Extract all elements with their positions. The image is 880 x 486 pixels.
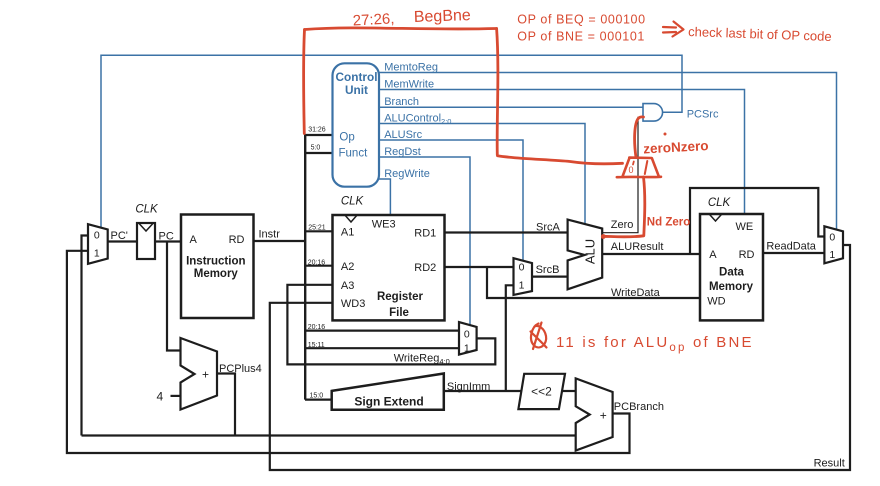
svg-text:Memory: Memory: [194, 268, 239, 280]
svg-text:Sign Extend: Sign Extend: [354, 395, 423, 409]
svg-text:OP of BNE = 000101: OP of BNE = 000101: [517, 30, 645, 44]
svg-text:Instruction: Instruction: [186, 256, 245, 268]
instruction memory box: [181, 215, 254, 319]
red wire: right vertical down and across to red mux input: [497, 29, 623, 164]
wire PCPlus4 adder output drop: [217, 374, 235, 436]
wire PCPlus4 bottom run to branch adder: [82, 434, 577, 436]
svg-text:PC: PC: [159, 230, 174, 242]
svg-text:CLK: CLK: [135, 204, 159, 216]
svg-text:Unit: Unit: [345, 83, 368, 97]
svg-text:Nd Zero: Nd Zero: [647, 217, 690, 229]
wire PC tap down to PCPlus4 adder: [167, 242, 181, 351]
svg-text:1: 1: [464, 343, 470, 355]
svg-text:Branch: Branch: [384, 96, 419, 108]
register file box with CLK: [333, 196, 445, 321]
svg-text:0: 0: [629, 165, 634, 175]
svg-text:Instr: Instr: [259, 229, 281, 241]
svg-text:RegDst: RegDst: [384, 146, 421, 158]
svg-text:WD3: WD3: [341, 298, 365, 310]
svg-text:Funct: Funct: [339, 148, 369, 160]
wire ALUResult to data memory A: [602, 253, 700, 255]
svg-text:ALUSrc: ALUSrc: [384, 129, 422, 141]
svg-text:WriteReg4:0: WriteReg4:0: [394, 353, 450, 367]
wire RegDst: control unit to WriteReg mux select: [379, 157, 470, 325]
red wire: mux up to AND gate input: [635, 117, 644, 158]
svg-text:20:16: 20:16: [308, 324, 326, 331]
adder PCBranch: [576, 378, 613, 450]
wire SignImm from sign extend to shifter: [444, 390, 521, 392]
svg-text:ReadData: ReadData: [766, 240, 816, 252]
wire MemtoReg: control unit to result mux select: [379, 73, 837, 230]
svg-text:CLK: CLK: [341, 196, 365, 208]
red dot above zeroNzero: [664, 133, 667, 136]
wire slice 20:16 to A2: [305, 265, 333, 267]
mux PC source (0/1): [88, 224, 108, 264]
svg-text:Result: Result: [814, 457, 845, 469]
mux SrcB (0/1): [514, 258, 533, 295]
svg-text:SrcA: SrcA: [536, 221, 561, 233]
wire Instr: instruction memory RD to instruction bus: [254, 240, 306, 242]
ALU: [568, 220, 603, 290]
red double arrow: [663, 22, 684, 37]
wire ALUResult bypass over data memory to result mux input 0: [690, 188, 824, 254]
svg-text:25:21: 25:21: [308, 225, 326, 232]
adder PCPlus4: [181, 338, 218, 410]
red wire: mux down to Zero wire and left to ALU: [604, 177, 645, 237]
mux result / MemtoReg (0/1): [824, 226, 843, 263]
svg-text:0: 0: [94, 230, 100, 242]
svg-text:0: 0: [464, 329, 470, 341]
svg-text:A1: A1: [341, 227, 354, 239]
svg-text:+: +: [202, 367, 209, 381]
svg-text:RD: RD: [739, 249, 755, 261]
sign extend box: [332, 374, 444, 410]
svg-text:RD: RD: [229, 234, 245, 246]
svg-text:CLK: CLK: [708, 197, 732, 209]
svg-text:File: File: [389, 307, 409, 319]
wire shifter output to branch adder: [562, 390, 576, 392]
svg-text:15:0: 15:0: [310, 393, 324, 400]
wire SrcB mux output to ALU: [532, 276, 568, 278]
svg-text:A: A: [709, 249, 717, 261]
wire instruction bus vertical: [304, 134, 306, 400]
svg-text:WD: WD: [707, 296, 725, 308]
wire SignImm tap up to SrcB mux input 1: [506, 285, 514, 391]
wire PCSrc: AND output up and across to PC mux select: [101, 55, 682, 227]
red text 27:26 BegBne: [352, 7, 471, 29]
register PC with CLK: [135, 204, 159, 260]
svg-text:4: 4: [157, 389, 164, 403]
wire RD1 to ALU SrcA: [445, 231, 568, 233]
wire Zero from ALU up toward AND gate (thin): [602, 117, 643, 232]
svg-text:RD2: RD2: [414, 262, 436, 274]
svg-text:ALUControl2:0: ALUControl2:0: [384, 112, 451, 126]
red doodle phi symbol: [531, 323, 547, 350]
AND gate PCSrc (blue): [643, 104, 663, 122]
svg-text:1: 1: [519, 280, 525, 292]
svg-text:A: A: [190, 234, 198, 246]
wire Branch: control unit to AND gate input: [379, 106, 643, 108]
wire slice 15:0 to sign extend: [305, 399, 332, 401]
svg-text:SignImm: SignImm: [447, 381, 490, 393]
svg-text:BegBne: BegBne: [414, 7, 472, 26]
wire WriteData branch from RD2 to data memory WD: [487, 267, 700, 298]
wire slice 15:11 to WriteReg mux input 1: [305, 347, 459, 349]
wire PCPlus4 loop to PC mux input 0: [82, 236, 89, 436]
svg-text:A2: A2: [341, 261, 354, 273]
wire ReadData to result mux input 1: [763, 252, 824, 254]
svg-text:PCBranch: PCBranch: [614, 401, 664, 413]
svg-text:SrcB: SrcB: [536, 264, 560, 276]
svg-text:15:11: 15:11: [308, 342, 325, 349]
svg-text:<<2: <<2: [531, 385, 552, 399]
svg-text:5:0: 5:0: [311, 145, 321, 152]
shifter left 2: [518, 374, 565, 409]
svg-text:+: +: [600, 408, 607, 422]
control unit (blue rounded box): [333, 63, 380, 186]
svg-text:0: 0: [829, 231, 835, 243]
svg-text:ALU: ALU: [583, 239, 598, 264]
red wire: left vertical from bracket down to 31:26 tap: [302, 30, 306, 134]
svg-text:Op: Op: [339, 132, 354, 144]
svg-text:PCSrc: PCSrc: [687, 108, 719, 120]
wire slice 31:26 Op tap: [305, 134, 333, 136]
svg-text:Memory: Memory: [709, 281, 754, 293]
wire WriteReg loop from mux output back to A3: [287, 285, 495, 365]
svg-text:check last bit of OP code: check last bit of OP code: [688, 24, 832, 44]
wire PCBranch: branch adder output loop to PC mux input 1: [67, 251, 630, 453]
wire Result from result mux down and back to WD3: [270, 245, 850, 470]
wire RegWrite: control unit to register file WE3: [379, 179, 390, 214]
svg-text:ALUResult: ALUResult: [611, 241, 664, 253]
svg-text:Zero: Zero: [611, 219, 634, 231]
red blob at ALU zero output: [601, 234, 606, 239]
red mux hand-drawn trapezoid: [617, 158, 661, 178]
svg-text:WE: WE: [736, 221, 754, 233]
wire slice 5:0 Funct tap: [305, 152, 333, 154]
svg-text:1: 1: [94, 247, 100, 259]
svg-text:RegWrite: RegWrite: [384, 168, 430, 180]
svg-text:zeroNzero: zeroNzero: [643, 138, 709, 156]
svg-text:Register: Register: [377, 291, 424, 303]
svg-text:OP of BEQ = 000100: OP of BEQ = 000100: [517, 13, 645, 27]
svg-text:1: 1: [829, 249, 835, 261]
svg-text:0: 0: [519, 261, 525, 273]
svg-text:11 is for ALUop of BNE: 11 is for ALUop of BNE: [556, 334, 754, 354]
svg-text:MemtoReg: MemtoReg: [384, 62, 438, 74]
svg-text:31:26: 31:26: [308, 127, 326, 134]
data memory box with CLK: [700, 197, 763, 320]
wire slice 20:16 to WriteReg mux input 0: [305, 330, 459, 332]
wire constant 4 to adder: [171, 395, 181, 397]
svg-text:20:16: 20:16: [308, 259, 326, 266]
svg-text:RD1: RD1: [414, 228, 436, 240]
wire MemWrite: control unit to data memory WE: [379, 90, 745, 214]
wire RD2 to SrcB mux input 0: [445, 266, 514, 268]
svg-text:Control: Control: [336, 70, 378, 84]
svg-text:Data: Data: [719, 267, 745, 279]
svg-text:WriteData: WriteData: [611, 287, 661, 299]
svg-text:PC': PC': [111, 230, 128, 242]
wire slice 25:21 to A1: [305, 230, 333, 232]
wire ALUControl: control unit to ALU: [379, 124, 585, 225]
wire PC: PC register to instruction memory A: [155, 240, 181, 242]
svg-text:PCPlus4: PCPlus4: [219, 363, 262, 375]
wire ALUSrc: control unit to SrcB mux select: [379, 140, 523, 261]
svg-text:27:26,: 27:26,: [352, 10, 395, 29]
svg-text:A3: A3: [341, 280, 354, 292]
red wire: top bracket horizontal: [305, 28, 497, 30]
svg-text:MemWrite: MemWrite: [384, 79, 434, 91]
wire PC' : PC mux output to PC register: [108, 240, 137, 242]
mux WriteReg (0/1): [459, 322, 477, 355]
svg-text:WE3: WE3: [372, 218, 396, 230]
